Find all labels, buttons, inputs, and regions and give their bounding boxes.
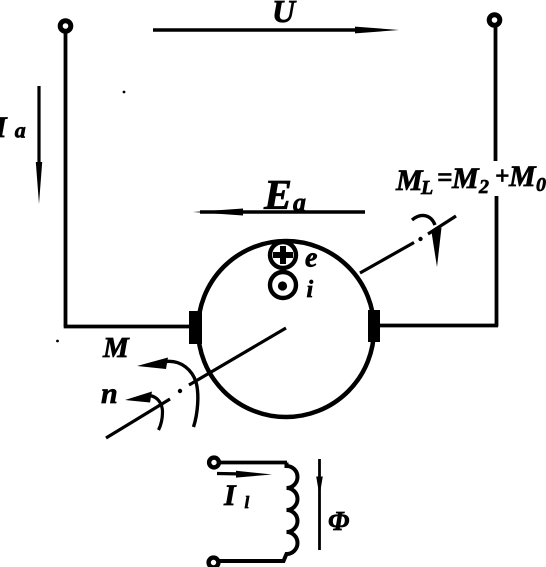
arrow U [153,27,399,34]
terminal field top [209,458,219,468]
wire right vertical lower [495,196,499,327]
svg-text:M: M [102,332,130,364]
wire left horizontal [64,325,191,329]
brush right [368,310,380,342]
svg-text:2: 2 [478,176,489,198]
svg-text:M: M [508,160,537,193]
wire field top [220,461,288,465]
speck dot [123,91,126,94]
svg-text:M: M [451,162,480,195]
svg-text:+: + [495,163,509,190]
arrow If [217,471,272,478]
svg-text:M: M [395,164,424,197]
brush left [189,311,202,344]
rotation arrow load ML [412,215,442,267]
svg-text:0: 0 [536,174,546,196]
shaft lower-left segment [106,399,170,438]
wire left vertical [64,33,68,327]
rotation arrow n [125,392,163,431]
shaft dot right [418,237,422,241]
wire right horizontal [379,324,498,328]
field winding coil Lf [219,463,298,562]
terminal field bottom [209,558,219,567]
arrow flux phi [316,459,323,550]
svg-text:=: = [437,162,452,192]
polarity symbol e (circled plus) [270,242,296,268]
speck dot [56,340,59,343]
arrow Ea [193,209,365,216]
arrow Ia [36,86,42,204]
svg-text:Φ: Φ [328,506,349,536]
terminal top-left [60,21,71,32]
shaft inner segment [189,328,286,385]
motor stator circle M1 [198,241,374,417]
terminal top-right [489,15,500,26]
shaft right segment [360,243,414,274]
label ML = M2 + M0 [395,160,546,199]
wire right vertical upper [494,27,498,162]
svg-text:U: U [272,0,297,29]
shaft tip segment [428,216,456,234]
svg-text:I: I [223,479,237,512]
svg-text:L: L [420,177,433,199]
svg-text:i: i [307,277,314,303]
shaft dot left [178,389,182,393]
polarity symbol i (circled dot) [270,272,296,298]
svg-text:l: l [245,493,250,512]
svg-text:e: e [305,243,317,274]
svg-text:n: n [101,377,118,410]
rotation arrow M [137,358,198,428]
